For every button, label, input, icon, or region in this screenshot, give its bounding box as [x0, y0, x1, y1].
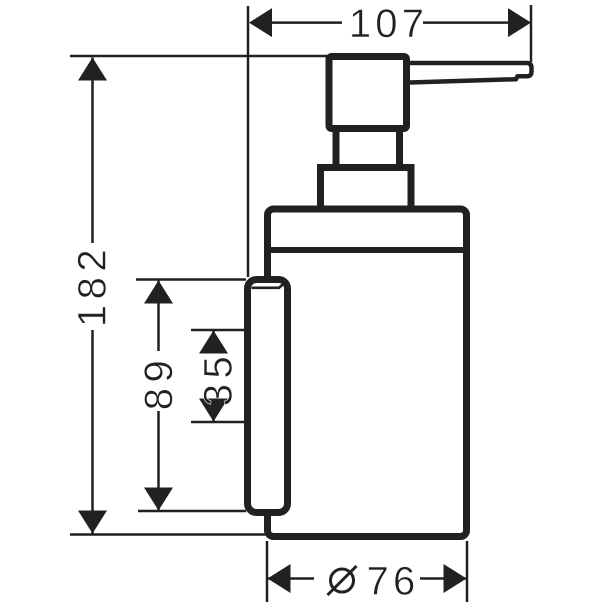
svg-text:89: 89	[137, 355, 181, 411]
wall bracket	[248, 280, 288, 513]
dimension line 182	[91, 58, 94, 534]
arrow 35 down	[199, 399, 228, 422]
extension line 182 bottom	[70, 533, 266, 536]
pump collar	[321, 168, 412, 208]
dimension line diameter 76	[267, 577, 467, 580]
spout	[406, 63, 532, 83]
label diameter 76	[328, 566, 357, 595]
svg-text:107: 107	[349, 2, 428, 46]
pump head	[329, 57, 407, 129]
svg-text:76: 76	[367, 560, 420, 603]
dimension line 89	[157, 281, 160, 511]
extension line 35 bottom	[191, 421, 246, 424]
extension line 35 top	[191, 329, 246, 332]
extension line diameter 76 left	[266, 541, 269, 602]
arrow 89 down	[144, 488, 173, 511]
dimension line 107	[251, 21, 529, 24]
arrow 107 right	[508, 8, 531, 37]
extension line 89 top	[136, 278, 246, 281]
dimension line 35	[212, 331, 215, 422]
extension line 107 left	[247, 6, 250, 277]
extension line 182 top	[70, 55, 327, 58]
arrow 182 up	[78, 58, 107, 81]
body cap separation line	[267, 247, 467, 253]
pump neck	[336, 130, 400, 165]
arrow 76 left	[268, 564, 291, 593]
extension line 107 right	[530, 5, 533, 62]
svg-text:35: 35	[196, 351, 240, 407]
svg-text:182: 182	[70, 244, 114, 327]
arrow 89 up	[144, 281, 173, 304]
body outline	[268, 209, 467, 537]
extension line diameter 76 right	[466, 541, 469, 602]
arrow 35 up	[199, 331, 228, 354]
extension line 89 bottom	[138, 510, 246, 513]
arrow 107 left	[249, 8, 272, 37]
arrow 76 right	[444, 564, 467, 593]
arrow 182 down	[78, 511, 107, 534]
wall bracket inner edge	[252, 281, 288, 288]
